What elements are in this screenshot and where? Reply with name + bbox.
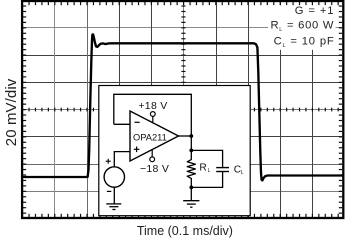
source plus marker <box>106 159 111 164</box>
annotation RL = 600 W <box>270 20 334 33</box>
svg-text:−18 V: −18 V <box>140 163 169 175</box>
wire output to load <box>190 136 192 150</box>
svg-text:G = +1: G = +1 <box>295 5 335 17</box>
capacitor CL <box>216 168 229 172</box>
svg-text:L: L <box>241 170 244 176</box>
feedback wire loop <box>114 94 192 136</box>
wire op-amp output <box>179 135 192 137</box>
wire capacitor branch top <box>191 150 222 167</box>
source ground <box>106 187 121 209</box>
junction load bottom node <box>189 186 193 190</box>
wire noninverting input <box>114 152 130 167</box>
op-amp U1 OPA211 triangle <box>130 111 179 161</box>
resistor RL <box>187 150 195 187</box>
wire inverting input <box>114 123 130 125</box>
svg-text:L: L <box>208 168 211 174</box>
load ground <box>183 187 199 207</box>
annotation G = +1 <box>268 5 336 50</box>
svg-text:Time (0.1 ms/div): Time (0.1 ms/div) <box>137 224 233 238</box>
svg-text:+18 V: +18 V <box>138 100 167 112</box>
wire capacitor branch bottom <box>191 172 222 187</box>
waveform trace <box>22 34 343 180</box>
svg-text:R: R <box>199 162 206 173</box>
junction output node <box>189 134 193 138</box>
svg-text:OPA211: OPA211 <box>133 132 167 142</box>
op-amp minus input marker <box>135 121 140 123</box>
source minus marker <box>107 190 111 192</box>
op-amp plus input marker <box>134 147 140 153</box>
positive supply terminal circle <box>150 112 155 123</box>
junction load top node <box>189 149 193 153</box>
source VS circle <box>104 167 124 187</box>
inset schematic box <box>99 86 250 216</box>
svg-text:20 mV/div: 20 mV/div <box>3 78 20 146</box>
negative supply terminal circle <box>150 150 155 162</box>
annotation CL = 10 pF <box>274 36 335 49</box>
